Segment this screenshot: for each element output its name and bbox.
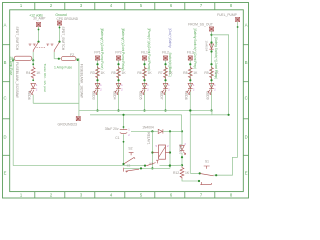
wire Ground pad down to switch S5	[59, 25, 61, 42]
wire R12 down to S1 lower throw	[182, 179, 199, 181]
svg-text:3: 3	[80, 193, 83, 198]
svg-text:FIL3: FIL3	[187, 51, 194, 55]
svg-text:2: 2	[184, 142, 186, 146]
svg-text:A: A	[4, 23, 7, 28]
svg-text:R12: R12	[173, 171, 179, 175]
svg-text:2: 2	[214, 87, 216, 91]
wire SS_OUT loop right and down	[212, 35, 229, 115]
svg-text:1: 1	[193, 83, 195, 87]
svg-text:1K: 1K	[185, 171, 190, 175]
svg-text:]Battery(+)(Joint Pump Fuse): ]Battery(+)(Joint Pump Fuse)	[100, 29, 104, 70]
svg-text:2: 2	[193, 87, 195, 91]
resistor R8 1K	[188, 66, 192, 79]
pad FIL2	[163, 56, 167, 60]
svg-text:5: 5	[155, 144, 157, 148]
mechanical link between S4 and S5	[37, 47, 47, 49]
svg-text:8: 8	[230, 3, 233, 8]
svg-text:1K: 1K	[101, 71, 106, 75]
svg-text:GROUND23: GROUND23	[58, 122, 78, 126]
ground bus upper	[79, 110, 212, 112]
svg-text:1N4004: 1N4004	[142, 126, 154, 130]
svg-text:3: 3	[80, 3, 83, 8]
wire SS_OUT down through diode	[211, 31, 213, 110]
svg-text:FIL2: FIL2	[162, 51, 169, 55]
fuse F1 20 Amp Fuse	[14, 56, 32, 60]
svg-text:1N4004: 1N4004	[204, 41, 208, 52]
wire FIL3 down to ground bus	[189, 60, 191, 110]
svg-text:FUSEBLANK_30205AW: FUSEBLANK_30205AW	[15, 62, 19, 99]
svg-text:1: 1	[20, 193, 23, 198]
resistor R9 1K	[210, 66, 214, 79]
wire bus to capacitor C1	[123, 115, 125, 129]
diode D5 1N5817	[209, 44, 213, 49]
svg-text:1K: 1K	[193, 71, 198, 75]
svg-text:B: B	[4, 60, 7, 65]
svg-text:6: 6	[170, 193, 173, 198]
wire FP1 down to ground bus	[97, 60, 99, 110]
svg-text:FP2: FP2	[115, 51, 121, 55]
capacitor C1 35uF 20v	[120, 130, 127, 134]
wire S2/S3 row	[124, 167, 170, 169]
svg-text:7: 7	[200, 3, 203, 8]
bottom bus left	[13, 165, 145, 167]
wire S1 throw to FUEL_PUMP line	[214, 157, 238, 175]
LED LED10	[180, 145, 185, 150]
wire fuse F1 left down long left bus	[12, 60, 14, 165]
svg-text:R5: R5	[111, 71, 115, 75]
svg-text:1: 1	[147, 83, 149, 87]
pad FP1	[95, 56, 99, 60]
svg-text:2: 2	[50, 193, 53, 198]
svg-text:D: D	[245, 135, 248, 140]
svg-text:SPDT_SWITCH: SPDT_SWITCH	[15, 27, 19, 51]
relay K1 contact switch	[146, 160, 158, 166]
wire from bus down to S1	[189, 111, 191, 174]
resistor R7 1K	[164, 66, 168, 79]
pad FIL1	[142, 56, 146, 60]
svg-text:]Pump(+)(a)(Joint Fuel Pump): ]Pump(+)(a)(Joint Fuel Pump)	[147, 29, 151, 71]
ground bus lower	[90, 114, 182, 116]
border grid numbers	[3, 3, 247, 198]
svg-text:CPS GROUND: CPS GROUND	[56, 17, 78, 21]
svg-text:30_AMP: 30_AMP	[33, 17, 45, 21]
switch S3	[124, 168, 139, 173]
svg-text:LED7: LED7	[159, 91, 163, 99]
svg-text:1: 1	[36, 83, 38, 87]
svg-text:FUEL_PUMP: FUEL_PUMP	[217, 13, 238, 17]
svg-text:1: 1	[100, 83, 102, 87]
wire FP2 down to ground bus	[118, 60, 120, 110]
LED LED6	[31, 83, 36, 88]
svg-text:B: B	[245, 60, 248, 65]
LED LED8	[188, 83, 193, 88]
wire C1 down to switch S2	[123, 134, 125, 164]
wire LED6 down and right to ground corner	[32, 95, 34, 104]
svg-text:5: 5	[140, 3, 143, 8]
wire FIL2 down to ground bus	[165, 60, 167, 110]
svg-text:S2: S2	[128, 146, 132, 150]
svg-text:2: 2	[128, 133, 130, 137]
svg-text:]Out(+)Safety: ]Out(+)Safety	[168, 29, 172, 48]
svg-text:LED6: LED6	[27, 91, 31, 99]
svg-text:RELAY1: RELAY1	[147, 132, 151, 145]
svg-text:7: 7	[200, 193, 203, 198]
svg-text:4: 4	[110, 3, 113, 8]
wire relay right lead down	[169, 131, 171, 168]
wire +12V pad down to switch S4	[38, 27, 40, 42]
svg-text:2: 2	[167, 144, 169, 148]
svg-text:C1: C1	[115, 136, 119, 140]
svg-text:1K: 1K	[36, 71, 41, 75]
resistor R12 1K	[180, 166, 184, 178]
resistor R3 1K	[96, 66, 100, 79]
resistor R5 1K	[117, 66, 121, 79]
svg-text:R3: R3	[90, 71, 94, 75]
svg-text:FIL1: FIL1	[141, 51, 148, 55]
resistor R4 branch below F1/S4	[32, 60, 34, 66]
wire S5 to fuse F2	[53, 52, 55, 59]
svg-text:LED5: LED5	[138, 91, 142, 99]
svg-text:1: 1	[20, 3, 23, 8]
svg-text:S3: S3	[127, 164, 131, 168]
svg-text:20 Amp Fuse: 20 Amp Fuse	[9, 57, 13, 76]
wire fuse F2 output down to ground bus	[76, 59, 79, 111]
svg-text:1 Amp Fuse: 1 Amp Fuse	[54, 65, 72, 69]
pad P1 +12V	[36, 22, 40, 26]
svg-text:2: 2	[36, 87, 38, 91]
LED10 column from bus	[181, 115, 183, 132]
switch S4 SPDT_SWITCH	[29, 42, 39, 52]
svg-text:6: 6	[170, 3, 173, 8]
wire FIL1 down to ground bus	[144, 60, 146, 110]
svg-text:LED4: LED4	[112, 91, 116, 99]
wire relay left lead down	[151, 131, 153, 168]
pad FROM_SS_OUT	[209, 27, 213, 31]
svg-text:1: 1	[128, 128, 130, 132]
svg-text:R8: R8	[183, 71, 187, 75]
wire diode to LED10 column	[163, 130, 182, 132]
svg-text:S1: S1	[205, 160, 209, 164]
svg-text:Trailer DN - 12v post: Trailer DN - 12v post	[43, 64, 47, 93]
svg-text:2: 2	[147, 87, 149, 91]
bottom bus after contact	[160, 164, 183, 166]
svg-text:1: 1	[121, 83, 123, 87]
wire S4 to fuse F1	[32, 52, 34, 60]
LED LED3	[95, 83, 100, 88]
svg-text:5: 5	[140, 193, 143, 198]
svg-text:R9: R9	[204, 71, 208, 75]
pad FP2	[116, 56, 120, 60]
svg-text:C: C	[245, 96, 248, 101]
svg-text:Switch(b)(Batt C): Switch(b)(Batt C)	[168, 53, 172, 77]
svg-text:LED8: LED8	[184, 91, 188, 99]
svg-text:1: 1	[168, 83, 170, 87]
svg-text:A: A	[245, 23, 248, 28]
LED LED7	[163, 83, 168, 88]
resistor R6 1K	[143, 66, 147, 79]
pad P2 Ground	[57, 21, 61, 25]
pad FUEL_PUMP	[236, 17, 240, 21]
svg-text:2: 2	[168, 87, 170, 91]
LED LED4	[116, 83, 121, 88]
svg-text:1K: 1K	[122, 71, 127, 75]
svg-text:E: E	[4, 171, 7, 176]
svg-text:8: 8	[230, 193, 233, 198]
svg-text:FP1: FP1	[94, 51, 100, 55]
svg-text:LED3: LED3	[91, 91, 95, 99]
svg-text:2: 2	[100, 87, 102, 91]
pad FIL3	[188, 56, 192, 60]
svg-text:F2: F2	[70, 53, 74, 57]
svg-text:2: 2	[121, 87, 123, 91]
svg-text:SPDT_SWITCH: SPDT_SWITCH	[61, 27, 65, 51]
svg-text:4: 4	[110, 193, 113, 198]
svg-text:1: 1	[214, 83, 216, 87]
pad GROUND23	[78, 111, 80, 117]
svg-text:FROM_SS_OUT: FROM_SS_OUT	[188, 22, 213, 26]
LED LED5	[142, 83, 147, 88]
svg-text:D: D	[3, 135, 6, 140]
svg-text:C: C	[3, 96, 6, 101]
svg-text:2: 2	[50, 3, 53, 8]
svg-text:R6: R6	[137, 71, 141, 75]
switch S5 SPDT_SWITCH	[46, 42, 59, 52]
svg-text:]Battery(+)(Joint Pump Relay): ]Battery(+)(Joint Pump Relay)	[121, 29, 125, 71]
svg-text:35uF 20v: 35uF 20v	[105, 127, 119, 131]
border column ticks	[3, 3, 249, 199]
svg-text:E: E	[245, 171, 248, 176]
wire coil bus 1N4004	[131, 130, 158, 132]
wire FUEL_PUMP down right side to switch S1	[237, 22, 239, 158]
svg-text:]Safety Switch(+)(Joint Pump): ]Safety Switch(+)(Joint Pump)	[214, 37, 218, 79]
svg-text:R4: R4	[26, 71, 30, 75]
pad GROUND23	[76, 117, 80, 121]
ground bus jog to SS loop	[212, 111, 229, 115]
resistor R4 1K	[31, 66, 35, 79]
svg-text:LED9: LED9	[205, 91, 209, 99]
svg-text:FUSEBLANK_1820AW: FUSEBLANK_1820AW	[80, 64, 84, 99]
svg-text:R7: R7	[158, 71, 162, 75]
svg-text:]Safety Switch(+)(Joint Pmp): ]Safety Switch(+)(Joint Pmp)	[193, 29, 197, 69]
LED LED9	[209, 83, 214, 88]
svg-text:1K: 1K	[148, 71, 153, 75]
border frame outer	[3, 3, 249, 199]
border frame inner	[10, 10, 244, 192]
